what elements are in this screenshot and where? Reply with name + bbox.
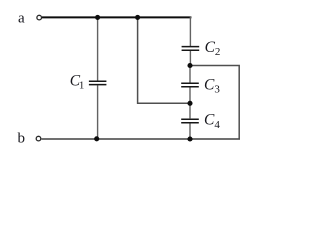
svg-text:3: 3: [214, 84, 220, 96]
svg-text:1: 1: [79, 79, 85, 91]
svg-text:C: C: [204, 111, 215, 128]
svg-text:b: b: [18, 130, 26, 146]
svg-text:a: a: [18, 11, 25, 27]
svg-text:2: 2: [215, 46, 221, 58]
svg-text:4: 4: [214, 119, 220, 131]
svg-text:C: C: [204, 77, 215, 94]
